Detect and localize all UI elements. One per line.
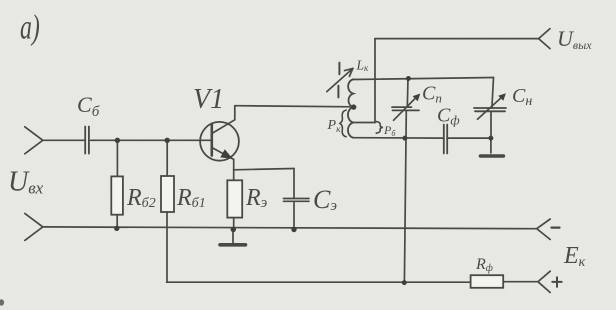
svg-text:а): а) bbox=[20, 8, 40, 47]
svg-text:V1: V1 bbox=[193, 84, 224, 115]
